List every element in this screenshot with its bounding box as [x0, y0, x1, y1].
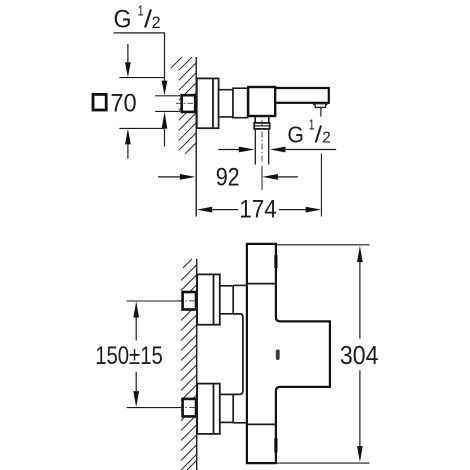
centre mark on arm: [276, 350, 280, 361]
right edge tick lower: [274, 438, 277, 452]
square symbol: [93, 94, 106, 110]
arrow down to nut top: [162, 81, 168, 96]
centre extension for 92 dim: [261, 166, 263, 190]
70 dim: lower arrow: [125, 129, 131, 145]
wall hatch (plan view): [171, 57, 196, 154]
leader from G1/2 label: [114, 33, 165, 81]
upper escutcheon: [197, 274, 220, 324]
svg-text:G: G: [114, 5, 132, 33]
body outline: [247, 244, 330, 463]
outlet pipe centerline: [261, 120, 263, 164]
svg-text:92: 92: [216, 163, 240, 191]
shower outlet collar: [254, 123, 269, 129]
neck section 1: [219, 90, 233, 117]
outlet pipe edges: [254, 129, 256, 165]
upper step: [220, 286, 233, 314]
nut centerline: [176, 102, 201, 104]
nut dim extension lines: [155, 95, 180, 97]
svg-text:2: 2: [152, 13, 161, 32]
92 dim: [158, 176, 180, 178]
wall line (plan view): [195, 57, 197, 217]
70 dim: extension lines: [119, 77, 164, 79]
label G 1/2 (top): [114, 4, 161, 34]
arrow up to nut bottom + tail: [162, 112, 168, 129]
pipe diameter arrows + G1/2 bottom label leader: [218, 149, 239, 151]
lower step: [220, 394, 233, 422]
svg-text:304: 304: [340, 340, 379, 370]
upper connector top edge: [233, 284, 247, 286]
cartridge block (plan): [248, 87, 275, 116]
wall hatch (elevation): [181, 259, 197, 470]
upper union centerline: [176, 300, 232, 302]
lower union centerline: [176, 407, 232, 409]
svg-text:1: 1: [138, 4, 144, 20]
neck section 2: [233, 88, 248, 118]
svg-text:70: 70: [110, 90, 136, 118]
escutcheon (plan, side profile): [197, 78, 219, 128]
mousseur under spout tip: [313, 103, 328, 105]
svg-text:2: 2: [322, 129, 331, 146]
right edge tick upper: [274, 255, 277, 268]
shower outlet neck below block: [255, 117, 269, 123]
label G 1/2 (bottom): [287, 118, 330, 148]
svg-text:150±15: 150±15: [95, 342, 163, 370]
escutcheon lip line: [212, 78, 214, 128]
174 dim: [197, 207, 213, 213]
svg-text:G: G: [287, 121, 304, 147]
mousseur leader: [320, 108, 322, 117]
cap joint lines: [247, 283, 276, 285]
G 1/2 wall union nut (plan): [182, 95, 196, 112]
upper union: nut: [183, 292, 196, 310]
wall line (elevation): [196, 259, 198, 470]
150±15 dim: [127, 300, 184, 302]
304 dim: [277, 244, 370, 246]
spout (plan): [275, 88, 329, 103]
lower escutcheon: [197, 384, 220, 434]
70 dim: upper arrow: [127, 44, 129, 62]
174 right extension: [320, 153, 322, 216]
svg-text:174: 174: [239, 196, 277, 224]
lower connector bottom edge: [233, 422, 247, 424]
lower union: nut: [183, 399, 196, 417]
left profile between unions (cover): [233, 314, 243, 395]
